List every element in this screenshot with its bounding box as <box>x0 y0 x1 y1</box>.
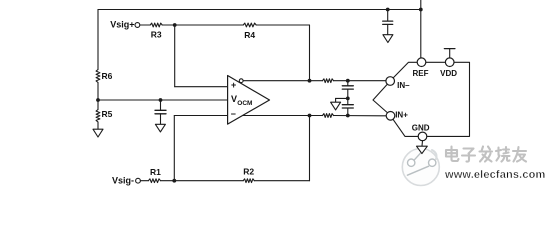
node input+ junction <box>173 23 177 27</box>
wire out- to RC <box>243 80 322 82</box>
wire -input horizontal <box>174 115 227 117</box>
wire +input vertical <box>174 25 176 87</box>
wire VOCM node to R5 <box>97 100 99 110</box>
node cap mid junction <box>346 97 350 101</box>
ground mid capacitor <box>331 102 341 110</box>
capacitor on VOCM node <box>155 100 166 124</box>
svg-text:R6: R6 <box>102 71 113 81</box>
wire out+ vertical to bottom rail <box>309 116 311 181</box>
svg-text:REF: REF <box>413 69 429 78</box>
wire feedback vertical down <box>309 25 311 81</box>
terminal Vsig+ <box>135 23 140 28</box>
svg-text:+: + <box>231 80 236 90</box>
wire R6 to VOCM node <box>97 83 99 101</box>
power VDD symbol <box>444 49 455 58</box>
pin REF <box>417 58 426 67</box>
wire +input horizontal <box>175 86 228 88</box>
node out+ junction <box>308 114 312 118</box>
svg-text:www.elecfans.com: www.elecfans.com <box>444 169 545 181</box>
wire left vertical to R6 <box>97 10 99 70</box>
svg-text:GND: GND <box>412 124 430 133</box>
wire -input vertical to bottom rail <box>173 116 175 181</box>
svg-text:R1: R1 <box>150 167 161 177</box>
ground GND pin stub <box>421 141 424 146</box>
node -input bottom junction <box>172 179 176 183</box>
resistor series out+ <box>323 114 334 118</box>
wire to IN+ <box>334 115 387 117</box>
op-amp U1 fully differential <box>228 76 270 125</box>
wire R1 to R2 <box>161 180 244 182</box>
pin IN- <box>386 77 395 86</box>
ADC chip outline <box>373 62 470 136</box>
node VOCM junction left <box>96 98 100 102</box>
node feedback/out- junction <box>308 79 312 83</box>
svg-text:IN–: IN– <box>397 81 410 90</box>
svg-text:Vsig+: Vsig+ <box>110 20 134 30</box>
ground GND pin symbol <box>417 146 428 153</box>
wire mid junction to ground <box>336 98 348 102</box>
capacitor filter bottom <box>342 98 353 115</box>
wire VOCM line to op-amp <box>98 99 228 101</box>
pin VDD <box>445 58 454 67</box>
svg-text:−: − <box>231 109 236 119</box>
wire to IN- <box>334 80 386 82</box>
capacitor bypass on rail <box>383 10 393 35</box>
wire R4 to feedback corner <box>256 24 309 26</box>
resistor R4 <box>243 23 256 27</box>
svg-text:IN+: IN+ <box>395 111 408 120</box>
node cap top junction <box>346 79 350 83</box>
svg-text:OCM: OCM <box>237 100 252 107</box>
ground bypass cap <box>383 35 393 43</box>
svg-text:R2: R2 <box>243 167 254 177</box>
terminal Vsig- <box>136 178 141 183</box>
node cap bottom junction <box>346 114 350 118</box>
watermark logo circle <box>402 149 439 186</box>
watermark text dianzifashaoyou <box>446 147 526 162</box>
wire Vsig- to R1 <box>140 180 148 182</box>
svg-text:R5: R5 <box>102 109 113 119</box>
wire out+ to RC <box>243 115 323 117</box>
ground below R5 <box>93 129 103 137</box>
capacitor filter top <box>342 81 353 99</box>
node REF rail junction <box>419 8 423 12</box>
svg-text:R4: R4 <box>244 30 255 40</box>
svg-text:Vsig-: Vsig- <box>112 175 134 185</box>
resistor R2 <box>243 179 254 183</box>
node bypass cap junction on rail <box>386 8 390 12</box>
svg-text:R3: R3 <box>151 29 162 39</box>
resistor R6 <box>96 70 100 83</box>
resistor series out- <box>323 79 334 83</box>
svg-text:VDD: VDD <box>440 69 457 78</box>
wire Vsig+ to R3 <box>140 24 150 26</box>
pin GND <box>418 132 427 141</box>
wire R3 to R4 <box>162 24 243 26</box>
op-amp inverting output circle <box>239 79 243 83</box>
node junction C bypass on VOCM line <box>159 98 163 102</box>
ground below VOCM capacitor <box>155 124 165 132</box>
svg-text:V: V <box>231 94 237 104</box>
resistor R5 <box>96 110 100 123</box>
resistor R1 <box>148 179 160 183</box>
resistor R3 <box>150 23 162 27</box>
wire R2 to corner <box>254 180 309 182</box>
wire REF vertical from top <box>420 0 422 58</box>
label op-amp Vocm <box>231 94 252 107</box>
wire top rail <box>98 9 421 11</box>
pin IN+ <box>386 112 395 121</box>
wire R5 to ground <box>97 122 99 129</box>
